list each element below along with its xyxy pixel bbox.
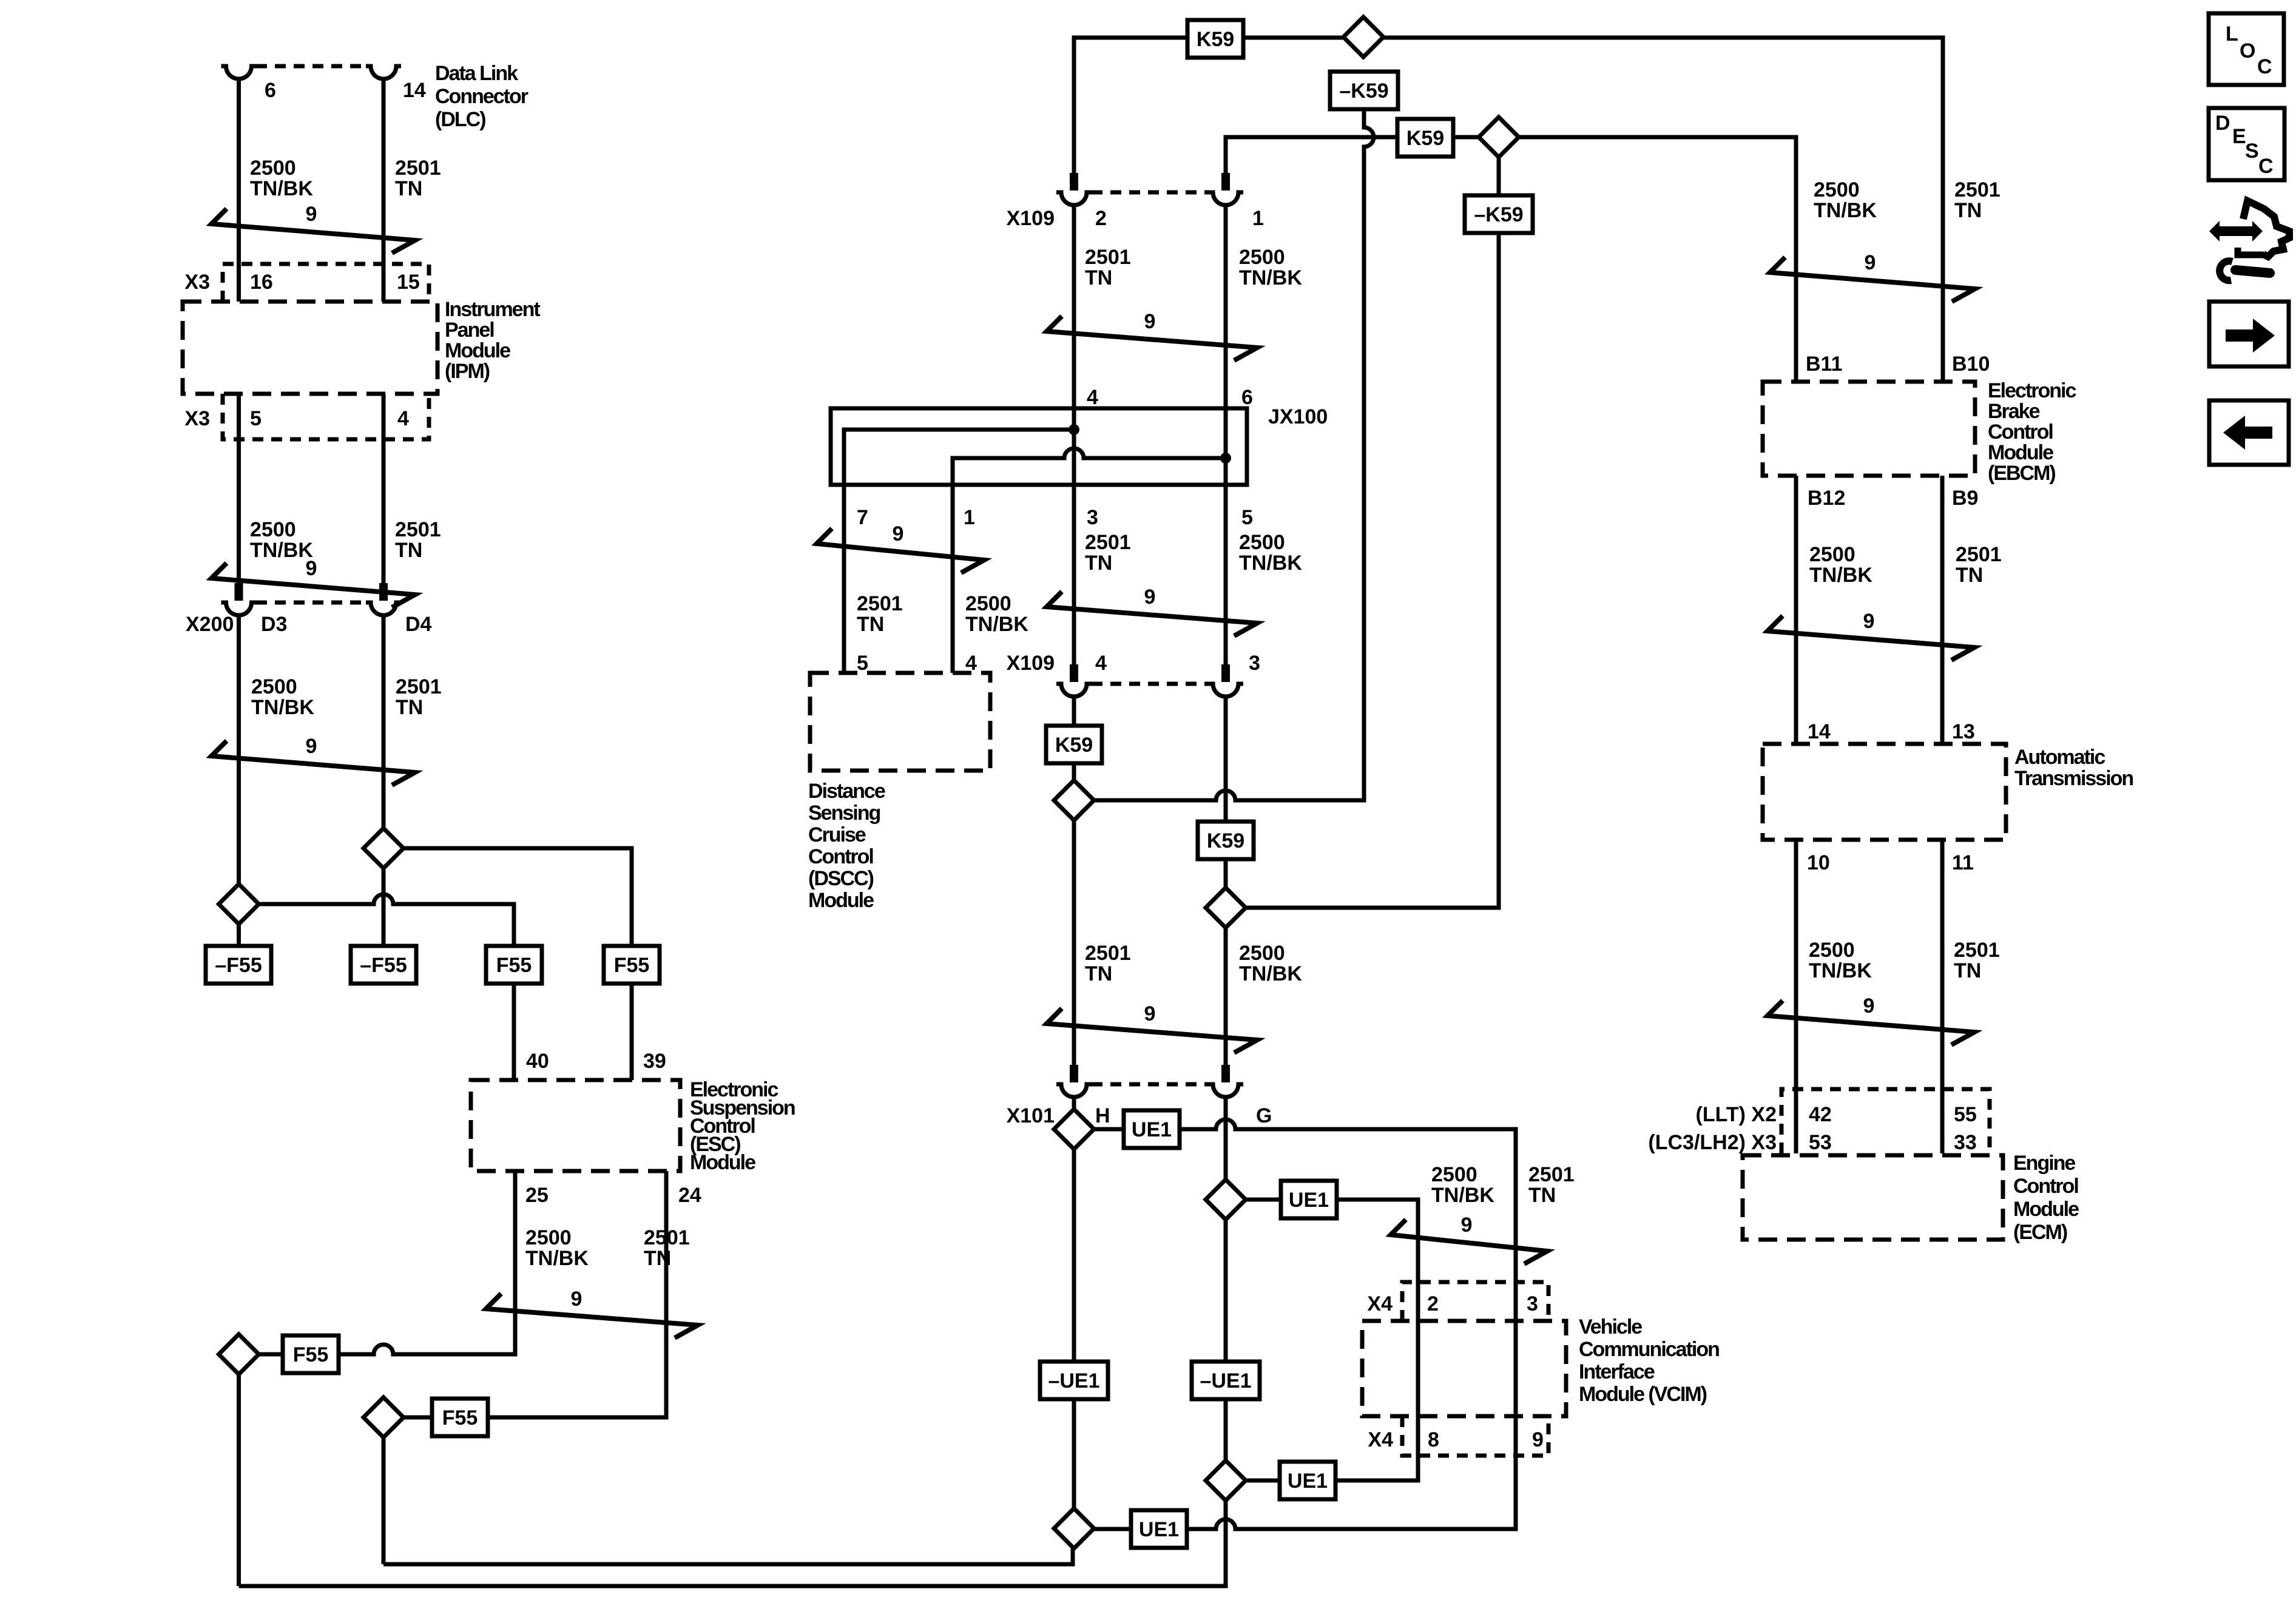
svg-text:TN: TN: [1085, 552, 1112, 575]
svg-text:(DSCC): (DSCC): [808, 867, 874, 890]
svg-text:Communication: Communication: [1579, 1338, 1719, 1361]
svg-text:F55: F55: [293, 1343, 329, 1366]
junction UE1 box bottom: [1131, 1510, 1187, 1548]
splice diamond on second run: [1479, 117, 1519, 157]
icon tool part outline: [2243, 201, 2289, 257]
svg-text:5: 5: [1241, 506, 1253, 529]
svg-text:D: D: [2215, 112, 2230, 135]
svg-text:3: 3: [1527, 1292, 1538, 1315]
connector X109 pin 4 terminal pin: [1070, 664, 1078, 682]
svg-text:2500: 2500: [1239, 246, 1285, 269]
svg-text:39: 39: [643, 1050, 666, 1073]
svg-text:TN/BK: TN/BK: [1809, 564, 1872, 587]
junction UE1 box: [1124, 1110, 1180, 1148]
svg-text:UE1: UE1: [1288, 1470, 1328, 1493]
connector X109 pin 3 cup: [1208, 684, 1243, 697]
svg-text:TN: TN: [1528, 1184, 1556, 1207]
svg-text:UE1: UE1: [1289, 1189, 1329, 1212]
svg-text:H: H: [1095, 1104, 1110, 1127]
wire F55 to ESC pin 39: [630, 984, 634, 1080]
svg-text:–UE1: –UE1: [1048, 1369, 1099, 1393]
icon right arrow box: [2209, 302, 2289, 366]
svg-text:Control: Control: [1988, 420, 2053, 444]
wire 2500 TN/BK second run to EBCM B11: [1226, 137, 1796, 382]
svg-text:X3: X3: [184, 271, 210, 294]
wire UE1 branch to VCIM pin 2: [1246, 1200, 1418, 1480]
svg-text:UE1: UE1: [1139, 1518, 1179, 1541]
svg-text:9: 9: [1144, 586, 1156, 609]
junction UE1 box: [1281, 1181, 1337, 1218]
svg-text:TN: TN: [395, 177, 422, 200]
svg-text:42: 42: [1809, 1103, 1832, 1126]
svg-text:2501: 2501: [396, 675, 442, 698]
svg-text:–F55: –F55: [215, 954, 262, 977]
wire 2500 TN/BK X200 D3 down to splice: [237, 615, 241, 884]
redraw JX100 wires through box: [1074, 408, 1226, 664]
wire 2501 TN X109 pin4 down: [1072, 697, 1076, 780]
module Vehicle Communication Interface Module (VCIM) dashed box: [1362, 1321, 1566, 1416]
svg-text:X109: X109: [1007, 652, 1055, 675]
svg-text:2500: 2500: [1431, 1163, 1477, 1186]
svg-text:2500: 2500: [1239, 942, 1285, 965]
svg-text:X200: X200: [186, 613, 234, 636]
svg-text:11: 11: [1952, 851, 1974, 874]
wire 2500 TN/BK to -F55: [237, 924, 241, 946]
wire 2501 TN top run to EBCM B10: [1074, 38, 1943, 382]
icon tool double arrow: [2209, 221, 2263, 241]
svg-text:9: 9: [306, 203, 317, 226]
svg-text:TN: TN: [396, 696, 423, 719]
wire 2500 TN/BK AT 10 to ECM: [1794, 840, 1798, 1153]
splice diamond on top run: [1343, 17, 1383, 57]
svg-text:2501: 2501: [395, 518, 441, 541]
svg-text:F55: F55: [442, 1406, 478, 1430]
svg-text:–K59: –K59: [1339, 79, 1388, 103]
svg-text:F55: F55: [496, 954, 532, 977]
svg-text:F55: F55: [614, 954, 650, 977]
svg-text:2501: 2501: [1954, 178, 2001, 201]
wire 2501 TN AT 11 to ECM: [1940, 840, 1945, 1153]
connector X101 pin H terminal pin: [1070, 1065, 1078, 1082]
wire UE1 branch to VCIM pin 3 with hop: [1094, 1119, 1516, 1529]
svg-text:2500: 2500: [250, 518, 296, 541]
connector X109 pin 2 terminal pin: [1070, 173, 1078, 191]
svg-text:(ECM): (ECM): [2013, 1221, 2067, 1244]
JX100 internal bus 2 with hop: [953, 448, 1226, 673]
svg-text:Brake: Brake: [1988, 400, 2040, 423]
splice diamond on 2500 TN/BK: [1206, 888, 1246, 928]
svg-text:14: 14: [403, 79, 426, 102]
svg-text:TN: TN: [1956, 564, 1983, 587]
svg-text:X4: X4: [1368, 1428, 1393, 1451]
junction block JX100 box: [831, 408, 1247, 485]
svg-text:15: 15: [397, 271, 420, 294]
wire -K59 branch vertical with hop to splice line: [1093, 109, 1374, 800]
icon left arrow box: [2209, 400, 2289, 465]
twisted pair symbol 9: [1047, 1008, 1257, 1053]
fuse F55 box on 2501 TN rail: [432, 1399, 488, 1436]
module Distance Sensing Cruise Control (DSCC) dashed box: [810, 673, 990, 771]
fuse F55 box on 2500 TN/BK rail: [283, 1335, 339, 1373]
svg-text:2501: 2501: [395, 157, 441, 180]
svg-text:(IPM): (IPM): [445, 360, 490, 383]
svg-text:24: 24: [678, 1184, 701, 1207]
svg-text:2500: 2500: [965, 592, 1011, 615]
svg-text:2: 2: [1427, 1292, 1439, 1315]
svg-text:7: 7: [857, 506, 868, 529]
svg-text:Cruise: Cruise: [808, 823, 866, 846]
connector DLC pin 14 cup: [366, 66, 401, 79]
svg-text:Module: Module: [1988, 441, 2053, 464]
svg-text:(LLT) X2: (LLT) X2: [1696, 1103, 1777, 1126]
wire 2501 TN down through -UE1: [1072, 1149, 1076, 1508]
svg-text:K59: K59: [1055, 734, 1093, 757]
svg-text:Interface: Interface: [1579, 1360, 1655, 1383]
svg-text:40: 40: [526, 1050, 549, 1073]
svg-text:TN: TN: [1085, 962, 1112, 985]
connector X109 pin 1 cup: [1208, 192, 1243, 205]
wire splice branch to F55 ESC pin 40 with hop: [258, 894, 514, 946]
svg-text:Module: Module: [808, 889, 874, 912]
svg-text:UE1: UE1: [1132, 1118, 1172, 1141]
connector X101 pin G cup: [1208, 1084, 1243, 1097]
svg-text:2500: 2500: [1239, 531, 1285, 554]
wire 2500 TN/BK X101 G to splice: [1224, 1097, 1228, 1180]
wire 2501 TN X109 pin2 to JX100: [1072, 205, 1076, 664]
svg-text:–UE1: –UE1: [1200, 1369, 1251, 1393]
connector X200 dashed line: [256, 601, 366, 605]
svg-text:4: 4: [1087, 386, 1098, 409]
twisted pair symbol 9: [1047, 592, 1257, 636]
junction K59 box on 2500 TN/BK: [1198, 822, 1254, 859]
svg-text:TN/BK: TN/BK: [1431, 1184, 1494, 1207]
twisted pair symbol 9: [212, 563, 416, 607]
svg-text:4: 4: [1095, 652, 1107, 675]
svg-text:JX100: JX100: [1268, 405, 1328, 428]
wire 2501 TN X101 H to splice: [1072, 1097, 1076, 1109]
junction -UE1 box on 2500 TN/BK: [1192, 1362, 1260, 1399]
svg-text:Electronic: Electronic: [1988, 379, 2076, 402]
svg-text:2500: 2500: [525, 1226, 572, 1249]
svg-text:1: 1: [1252, 207, 1264, 230]
connector X109 pin 2 cup: [1056, 192, 1092, 205]
svg-text:B9: B9: [1952, 487, 1978, 510]
svg-text:Transmission: Transmission: [2014, 767, 2133, 790]
svg-text:TN/BK: TN/BK: [250, 539, 313, 562]
module Instrument Panel Module (IPM) dashed box: [183, 302, 437, 394]
svg-text:Vehicle: Vehicle: [1579, 1315, 1642, 1338]
svg-text:Data Link: Data Link: [435, 62, 518, 85]
connector DLC dashed line: [256, 64, 366, 69]
wire splice branch to F55 ESC pin 39: [403, 848, 632, 946]
svg-text:5: 5: [857, 652, 868, 675]
wire F55 to ESC pin 40: [512, 984, 516, 1080]
wire ESC pin 24 down to F55 splice: [403, 1171, 666, 1417]
module Automatic Transmission dashed box: [1763, 744, 2006, 840]
twisted pair symbol 9: [486, 1294, 698, 1338]
svg-text:X109: X109: [1007, 207, 1055, 230]
svg-text:33: 33: [1954, 1131, 1977, 1154]
svg-text:–K59: –K59: [1474, 203, 1523, 226]
JX100 internal bus 1: [844, 430, 1074, 673]
module Engine Control Module (ECM) dashed box: [1743, 1155, 2003, 1240]
junction K59 box on top run: [1187, 20, 1243, 58]
twisted pair symbol 9: [1768, 616, 1974, 660]
svg-text:TN: TN: [1954, 199, 1982, 222]
icon tool wrench handle: [2235, 270, 2270, 273]
svg-text:B12: B12: [1808, 487, 1845, 510]
icon DESC box: [2209, 108, 2284, 180]
svg-text:K59: K59: [1406, 127, 1444, 150]
connector X3 row pins 16 15 dashed box: [223, 264, 429, 302]
module Electronic Suspension Control (ESC) dashed box: [471, 1080, 680, 1171]
wire 2501 TN X200 D4 down to splice: [382, 615, 386, 828]
svg-text:TN/BK: TN/BK: [251, 696, 314, 719]
svg-text:9: 9: [1863, 610, 1875, 633]
svg-text:L: L: [2226, 22, 2238, 46]
connector X101 pin H cup: [1056, 1084, 1092, 1097]
svg-text:6: 6: [1241, 386, 1253, 409]
svg-text:TN: TN: [1954, 959, 1981, 982]
svg-text:TN: TN: [1085, 266, 1112, 289]
splice diamond on 2501 TN bottom: [1054, 1508, 1094, 1548]
svg-text:Panel: Panel: [445, 319, 494, 342]
svg-text:B10: B10: [1952, 353, 1990, 376]
junction K59 box on 2501 TN: [1046, 726, 1102, 763]
svg-text:TN/BK: TN/BK: [1809, 959, 1872, 982]
svg-text:(LC3/LH2) X3: (LC3/LH2) X3: [1648, 1131, 1777, 1154]
wire 2501 TN splice to X101 H: [1072, 820, 1076, 1065]
wire 2500 TN/BK X109 pin1 to JX100: [1224, 205, 1228, 664]
fuse F55 box to ESC pin 40: [486, 946, 542, 984]
splice diamond on 2501 TN: [363, 828, 403, 868]
svg-text:Control: Control: [808, 845, 873, 868]
svg-text:9: 9: [1863, 994, 1875, 1018]
connector X4 row1 VCIM dotted box: [1402, 1282, 1548, 1321]
svg-text:D4: D4: [405, 613, 432, 636]
junction -K59 box: [1330, 72, 1398, 109]
svg-text:9: 9: [893, 522, 904, 545]
junction UE1 box lower: [1280, 1462, 1335, 1499]
svg-text:2500: 2500: [1814, 178, 1860, 201]
wire 2500 TN/BK splice to X101 G: [1224, 928, 1228, 1065]
connector X200 pin D4 terminal pin: [379, 583, 388, 601]
twisted pair symbol 9: [212, 209, 416, 253]
splice diamond on 2500 TN/BK: [219, 884, 259, 924]
twisted pair symbol 9: [1768, 1001, 1974, 1045]
splice diamond on 2500 TN/BK: [219, 1334, 259, 1374]
svg-text:TN/BK: TN/BK: [1239, 962, 1302, 985]
connector X200 pin D3 terminal pin: [235, 583, 243, 601]
connector X101 dashed line: [1092, 1082, 1208, 1087]
svg-text:2501: 2501: [857, 592, 903, 615]
svg-text:–F55: –F55: [360, 954, 407, 977]
svg-text:2500: 2500: [251, 675, 297, 698]
svg-text:Module: Module: [690, 1151, 755, 1174]
connector X200 pin D3 cup: [221, 603, 257, 615]
splice diamond on 2500 TN/BK: [1206, 1180, 1246, 1220]
svg-text:Module: Module: [445, 339, 510, 362]
twisted pair symbol 9: [1047, 316, 1257, 360]
svg-text:X101: X101: [1007, 1104, 1055, 1127]
wire 2500 TN/BK splice to bottom rail: [237, 1374, 241, 1586]
wire -K59 branch vertical to lower splice line: [1246, 157, 1499, 908]
svg-text:55: 55: [1954, 1103, 1977, 1126]
connector X3 bottom row pins 5 4 dashed box: [223, 394, 429, 439]
svg-text:53: 53: [1809, 1131, 1832, 1154]
splice diamond on 2501 TN: [363, 1397, 403, 1437]
svg-text:Distance: Distance: [808, 780, 885, 803]
fuse F55 box to ESC pin 39: [604, 946, 660, 984]
svg-text:10: 10: [1807, 851, 1830, 874]
svg-text:Control: Control: [2013, 1175, 2078, 1198]
svg-text:2501: 2501: [1528, 1163, 1575, 1186]
wire 2501 TN IPM pin 4 to X200 D4: [382, 394, 386, 583]
svg-text:2: 2: [1095, 207, 1107, 230]
svg-text:9: 9: [306, 735, 317, 758]
junction dot bus2: [1220, 453, 1231, 464]
svg-text:9: 9: [1532, 1428, 1544, 1451]
svg-text:2500: 2500: [1809, 939, 1855, 962]
svg-text:16: 16: [250, 271, 273, 294]
fuse -F55 box on 2501 TN: [351, 946, 416, 984]
svg-text:2501: 2501: [1954, 939, 2000, 962]
connector X101 pin G terminal pin: [1221, 1065, 1230, 1082]
connector X109 pin 4 cup: [1056, 684, 1092, 697]
svg-text:9: 9: [306, 557, 317, 580]
svg-text:2501: 2501: [1085, 942, 1131, 965]
svg-text:5: 5: [250, 407, 262, 430]
svg-text:O: O: [2240, 39, 2255, 62]
svg-text:TN/BK: TN/BK: [250, 177, 313, 200]
icon tool part hook: [2238, 248, 2264, 255]
connector X109 pin 1 terminal pin: [1221, 173, 1230, 191]
twisted pair symbol 9: [212, 741, 416, 785]
svg-text:2501: 2501: [1085, 246, 1131, 269]
wire bottom rail 2500 TN/BK to left column: [239, 1501, 1226, 1586]
svg-text:2500: 2500: [250, 157, 296, 180]
svg-text:E: E: [2232, 125, 2246, 148]
svg-text:2501: 2501: [1085, 531, 1131, 554]
svg-text:Connector: Connector: [435, 85, 528, 108]
svg-text:8: 8: [1428, 1428, 1439, 1451]
module Electronic Brake Control Module (EBCM) dashed box: [1763, 382, 1975, 476]
svg-text:G: G: [1256, 1104, 1272, 1127]
connector ECM pins dotted box: [1781, 1089, 1990, 1153]
connector X109 pin 3 terminal pin: [1221, 664, 1230, 682]
junction -K59 box lower: [1465, 195, 1533, 233]
svg-text:TN/BK: TN/BK: [525, 1247, 589, 1270]
wire 2500 TN/BK down through -UE1: [1224, 1220, 1228, 1460]
fuse -F55 box on 2500 TN/BK: [206, 946, 271, 984]
svg-text:Sensing: Sensing: [808, 802, 880, 825]
connector X4 row2 VCIM dotted box: [1402, 1416, 1548, 1456]
svg-text:B11: B11: [1806, 353, 1843, 376]
svg-text:Instrument: Instrument: [445, 298, 540, 321]
twisted pair symbol 9 DSCC pair: [817, 528, 984, 573]
svg-text:X3: X3: [184, 407, 210, 430]
wire 2500 TN/BK IPM pin 5 to X200 D3: [237, 394, 241, 583]
svg-text:K59: K59: [1197, 28, 1234, 51]
splice diamond on 2501 TN: [1054, 780, 1094, 820]
svg-text:Module: Module: [2013, 1198, 2079, 1221]
svg-text:TN/BK: TN/BK: [1239, 266, 1302, 289]
wire ESC pin 25 down to F55 splice with hop: [258, 1171, 515, 1354]
svg-text:TN/BK: TN/BK: [1239, 552, 1302, 575]
twisted pair symbol 9: [1770, 257, 1975, 302]
icon LOC box: [2209, 13, 2284, 85]
svg-text:9: 9: [1865, 251, 1876, 274]
svg-text:9: 9: [1144, 310, 1156, 333]
wire 2501 TN to -F55: [382, 868, 386, 946]
svg-text:4: 4: [397, 407, 409, 430]
wire bottom rail 2501 TN to left column: [383, 1548, 1073, 1564]
svg-text:Automatic: Automatic: [2014, 746, 2105, 769]
connector X109 row2 dashed line: [1092, 682, 1208, 686]
splice diamond on 2501 TN at X101: [1054, 1109, 1094, 1149]
svg-text:14: 14: [1808, 720, 1831, 743]
connector X109 row1 dashed line: [1092, 191, 1208, 195]
svg-text:3: 3: [1087, 506, 1098, 529]
svg-text:TN: TN: [395, 539, 422, 562]
svg-text:(DLC): (DLC): [435, 108, 485, 131]
svg-text:C: C: [2257, 55, 2272, 78]
svg-text:2501: 2501: [1956, 543, 2002, 566]
icon tool wrench head: [2220, 261, 2232, 280]
svg-text:6: 6: [265, 79, 276, 102]
connector X200 pin D4 cup: [366, 603, 401, 615]
svg-text:9: 9: [1461, 1214, 1473, 1237]
svg-text:2500: 2500: [1809, 543, 1855, 566]
wire 2501 TN splice to bottom rail: [382, 1437, 386, 1564]
svg-text:1: 1: [964, 506, 975, 529]
wire 2501 TN DLC pin 14 to IPM pin 15: [382, 78, 386, 302]
wire 2500 TN/BK X109 pin3 down: [1224, 697, 1228, 888]
svg-text:25: 25: [525, 1184, 549, 1207]
svg-text:S: S: [2245, 140, 2259, 163]
junction dot bus1: [1069, 424, 1079, 435]
wire 2500 TN/BK DLC pin 6 to IPM pin 16: [237, 78, 241, 302]
junction -UE1 box on 2501 TN: [1040, 1362, 1108, 1399]
svg-text:13: 13: [1952, 720, 1975, 743]
svg-text:C: C: [2258, 155, 2274, 178]
twisted pair symbol 9: [1391, 1220, 1547, 1264]
svg-text:TN/BK: TN/BK: [965, 613, 1028, 636]
svg-text:X4: X4: [1367, 1292, 1393, 1315]
svg-text:Engine: Engine: [2013, 1152, 2075, 1175]
svg-text:Module (VCIM): Module (VCIM): [1579, 1383, 1707, 1406]
svg-text:TN: TN: [857, 613, 884, 636]
svg-text:TN/BK: TN/BK: [1814, 199, 1877, 222]
splice diamond on 2500 TN/BK lower: [1206, 1460, 1246, 1501]
wire 2500 TN/BK EBCM B12 to AT 14: [1794, 476, 1798, 744]
svg-text:9: 9: [1144, 1002, 1156, 1025]
svg-text:9: 9: [571, 1288, 582, 1311]
svg-text:(EBCM): (EBCM): [1988, 462, 2055, 485]
wire 2501 TN EBCM B9 to AT 13: [1940, 476, 1945, 744]
svg-text:D3: D3: [261, 613, 287, 636]
connector DLC pin 6 cup: [221, 66, 257, 79]
junction K59 box on second run: [1397, 119, 1453, 157]
svg-text:K59: K59: [1207, 829, 1244, 852]
svg-text:3: 3: [1249, 652, 1260, 675]
